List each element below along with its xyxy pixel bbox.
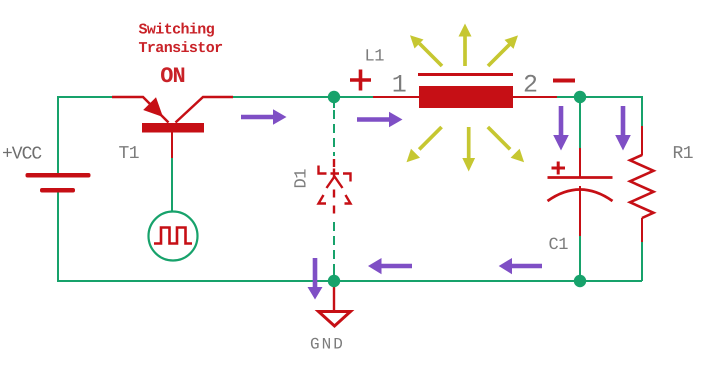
svg-text:C1: C1 xyxy=(549,236,569,255)
wire left rail lower and bottom rail xyxy=(58,192,642,282)
L1 pin 2 lead xyxy=(513,96,557,98)
L1 minus sign xyxy=(553,79,575,83)
diode D1 cathode bar center dash xyxy=(331,169,340,179)
battery bottom plate xyxy=(40,188,75,193)
current arrow right 2 xyxy=(357,112,403,128)
diode D1 anode apex chevron xyxy=(327,177,343,189)
ground xyxy=(319,312,351,327)
C1 top lead xyxy=(579,148,581,177)
svg-text:+VCC: +VCC xyxy=(2,145,42,165)
current arrow left 2 xyxy=(499,258,542,274)
GND lead xyxy=(333,285,335,310)
wire C1 branch top xyxy=(579,97,581,148)
pulse source square wave xyxy=(154,228,192,244)
diode D1 top lead dash xyxy=(333,159,335,167)
transistor T1 base bar xyxy=(142,123,204,133)
wire C1 branch bottom xyxy=(579,236,581,281)
node C junction dot xyxy=(328,275,340,287)
diode D1 anode right corner xyxy=(345,195,351,204)
capacitor C1 top plate xyxy=(548,176,613,179)
C1 bottom lead xyxy=(579,186,581,236)
transistor T1 base lead xyxy=(171,132,173,158)
transistor T1 emitter lead xyxy=(112,97,169,123)
capacitor C1 plus sign xyxy=(552,162,566,175)
field arrow SW xyxy=(407,127,442,162)
L1 pin 1 lead xyxy=(373,96,419,98)
svg-text:ON: ON xyxy=(160,64,184,89)
wire D1 branch dashed lower xyxy=(333,222,335,274)
label Switching Transistor xyxy=(139,22,223,58)
svg-text:2: 2 xyxy=(523,71,538,100)
inductor L1 top line xyxy=(418,73,513,76)
current arrow left 1 xyxy=(368,258,412,274)
svg-text:Transistor: Transistor xyxy=(139,40,223,57)
current arrow down C1 xyxy=(553,106,569,151)
transistor T1 emitter arrow xyxy=(143,97,163,117)
diode D1 anode left corner xyxy=(319,195,327,204)
svg-text:GND: GND xyxy=(310,336,345,354)
svg-text:1: 1 xyxy=(392,71,407,100)
wire node B to R1 branch xyxy=(557,97,642,126)
diode D1 center dash inside triangle xyxy=(333,190,335,198)
wire D1 branch top stub xyxy=(333,97,335,108)
svg-text:Switching: Switching xyxy=(139,22,215,39)
svg-text:R1: R1 xyxy=(673,144,694,164)
wire R1 bottom xyxy=(641,242,643,281)
battery top plate xyxy=(26,173,91,178)
resistor R1 xyxy=(630,155,654,218)
wire base to pulse source xyxy=(171,158,173,212)
node D junction dot xyxy=(574,275,586,287)
wire D1 branch bottom stub xyxy=(333,272,335,281)
wire collector to node A xyxy=(233,96,373,98)
current arrow right 1 xyxy=(241,109,287,125)
field arrow S xyxy=(462,127,475,172)
capacitor C1 bottom plate arc xyxy=(548,190,613,202)
diode D1 zener cathode bar right hook xyxy=(343,174,351,182)
pulse source circle xyxy=(149,212,198,261)
svg-text:D1: D1 xyxy=(293,169,312,189)
node A junction dot xyxy=(328,91,340,103)
R1 top lead xyxy=(641,126,643,156)
L1 plus sign xyxy=(350,70,371,91)
transistor T1 collector lead xyxy=(176,97,234,123)
current arrow down R1 xyxy=(615,106,631,151)
svg-text:T1: T1 xyxy=(119,144,140,164)
current arrow down GND node xyxy=(308,258,323,300)
svg-text:L1: L1 xyxy=(365,48,385,67)
R1 bottom lead xyxy=(641,218,643,242)
field arrow SE xyxy=(488,127,524,162)
wire left rail upper (VCC to battery) xyxy=(58,97,112,174)
field arrow N xyxy=(459,24,472,67)
field arrow NW xyxy=(410,35,442,66)
inductor L1 body xyxy=(419,86,513,108)
diode D1 bottom lead dash xyxy=(333,206,335,214)
field arrow NE xyxy=(488,35,518,66)
diode D1 zener cathode bar left hook xyxy=(319,166,327,174)
wire D1 branch dashed upper xyxy=(333,110,335,156)
node B junction dot xyxy=(574,91,586,103)
